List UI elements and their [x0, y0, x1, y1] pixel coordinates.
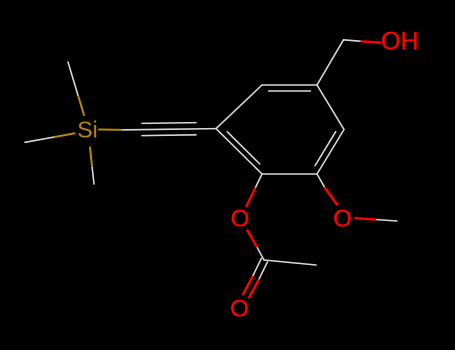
- svg-text:Si: Si: [77, 117, 97, 143]
- svg-text:O: O: [230, 296, 249, 323]
- svg-text:O: O: [333, 206, 352, 233]
- svg-text:OH: OH: [381, 27, 419, 55]
- svg-text:O: O: [231, 206, 250, 233]
